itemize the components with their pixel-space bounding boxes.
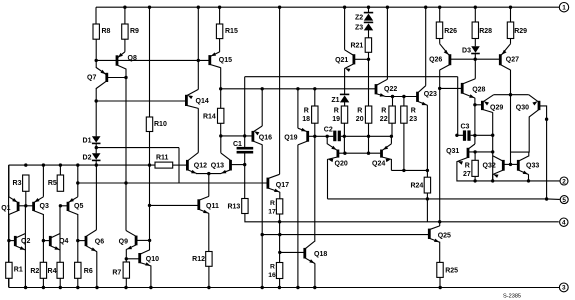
svg-text:R1: R1	[14, 267, 23, 274]
svg-text:Q20: Q20	[335, 161, 348, 168]
svg-text:R15: R15	[225, 28, 238, 35]
svg-text:23: 23	[409, 116, 417, 123]
svg-text:Q28: Q28	[472, 87, 485, 94]
svg-text:Q22: Q22	[384, 86, 397, 93]
svg-text:Q27: Q27	[506, 57, 519, 64]
svg-text:Q31: Q31	[446, 148, 459, 155]
svg-text:18: 18	[302, 116, 310, 123]
svg-text:Q25: Q25	[438, 233, 451, 240]
svg-text:C1: C1	[233, 141, 242, 148]
svg-text:D1: D1	[83, 137, 92, 144]
svg-text:16: 16	[268, 272, 276, 279]
svg-text:Q21: Q21	[335, 57, 348, 64]
svg-text:Q4: Q4	[59, 238, 68, 245]
svg-text:Q15: Q15	[219, 57, 232, 64]
svg-text:R12: R12	[192, 256, 205, 263]
svg-text:3: 3	[562, 285, 566, 292]
svg-text:Q7: Q7	[87, 74, 96, 81]
svg-text:Q17: Q17	[276, 182, 289, 189]
svg-text:Q33: Q33	[526, 163, 539, 170]
svg-text:Q14: Q14	[196, 98, 209, 105]
svg-text:R21: R21	[350, 43, 363, 50]
svg-text:Z3: Z3	[355, 24, 363, 31]
svg-text:R13: R13	[227, 203, 240, 210]
svg-text:Q19: Q19	[284, 135, 297, 142]
svg-text:Q12: Q12	[194, 162, 207, 169]
svg-text:R10: R10	[154, 121, 167, 128]
svg-text:R29: R29	[514, 28, 527, 35]
svg-text:Z2: Z2	[355, 15, 363, 22]
svg-text:R11: R11	[156, 155, 169, 162]
svg-text:27: 27	[463, 171, 471, 178]
svg-text:Q8: Q8	[128, 55, 137, 62]
svg-text:D3: D3	[462, 47, 471, 54]
svg-text:19: 19	[332, 116, 340, 123]
svg-text:Q23: Q23	[424, 91, 437, 98]
svg-text:R14: R14	[203, 114, 216, 121]
svg-text:R: R	[357, 108, 362, 115]
svg-text:R4: R4	[48, 268, 57, 275]
svg-text:4: 4	[562, 220, 566, 227]
svg-text:R6: R6	[84, 268, 93, 275]
svg-text:R24: R24	[410, 183, 423, 190]
svg-text:2: 2	[562, 178, 566, 185]
svg-text:R3: R3	[13, 180, 22, 187]
svg-text:Q18: Q18	[314, 251, 327, 258]
svg-text:22: 22	[380, 116, 388, 123]
svg-text:Q6: Q6	[95, 239, 104, 246]
svg-text:R28: R28	[479, 28, 492, 35]
svg-text:R2: R2	[30, 268, 39, 275]
svg-text:Q9: Q9	[119, 239, 128, 246]
svg-text:Q1: Q1	[1, 205, 10, 212]
svg-text:5: 5	[562, 197, 566, 204]
svg-text:Q24: Q24	[372, 161, 385, 168]
svg-text:Q10: Q10	[146, 256, 159, 263]
svg-text:R8: R8	[102, 28, 111, 35]
svg-text:Q29: Q29	[490, 104, 503, 111]
svg-text:S-2385: S-2385	[503, 294, 521, 300]
svg-text:Q13: Q13	[211, 162, 224, 169]
svg-text:Q2: Q2	[21, 238, 30, 245]
svg-text:R: R	[270, 200, 275, 207]
svg-text:R: R	[411, 108, 416, 115]
svg-text:C3: C3	[461, 124, 470, 131]
svg-text:R7: R7	[112, 270, 121, 277]
svg-text:Q16: Q16	[259, 135, 272, 142]
svg-text:Z1: Z1	[331, 97, 339, 104]
svg-text:R9: R9	[130, 28, 139, 35]
svg-text:Q32: Q32	[483, 163, 496, 170]
svg-text:R: R	[304, 108, 309, 115]
svg-text:R: R	[465, 163, 470, 170]
svg-text:Q11: Q11	[206, 203, 219, 210]
svg-text:R25: R25	[445, 267, 458, 274]
svg-text:17: 17	[268, 209, 276, 216]
svg-text:D2: D2	[83, 154, 92, 161]
svg-text:Q30: Q30	[516, 104, 529, 111]
svg-text:1: 1	[562, 5, 566, 12]
svg-text:20: 20	[356, 116, 364, 123]
svg-text:C2: C2	[324, 127, 333, 134]
svg-text:Q26: Q26	[429, 57, 442, 64]
svg-text:R5: R5	[48, 180, 57, 187]
svg-text:R: R	[270, 264, 275, 271]
svg-text:R26: R26	[444, 28, 457, 35]
svg-text:Q3: Q3	[40, 203, 49, 210]
svg-text:R: R	[334, 108, 339, 115]
svg-text:Q5: Q5	[74, 203, 83, 210]
svg-text:R: R	[381, 108, 386, 115]
